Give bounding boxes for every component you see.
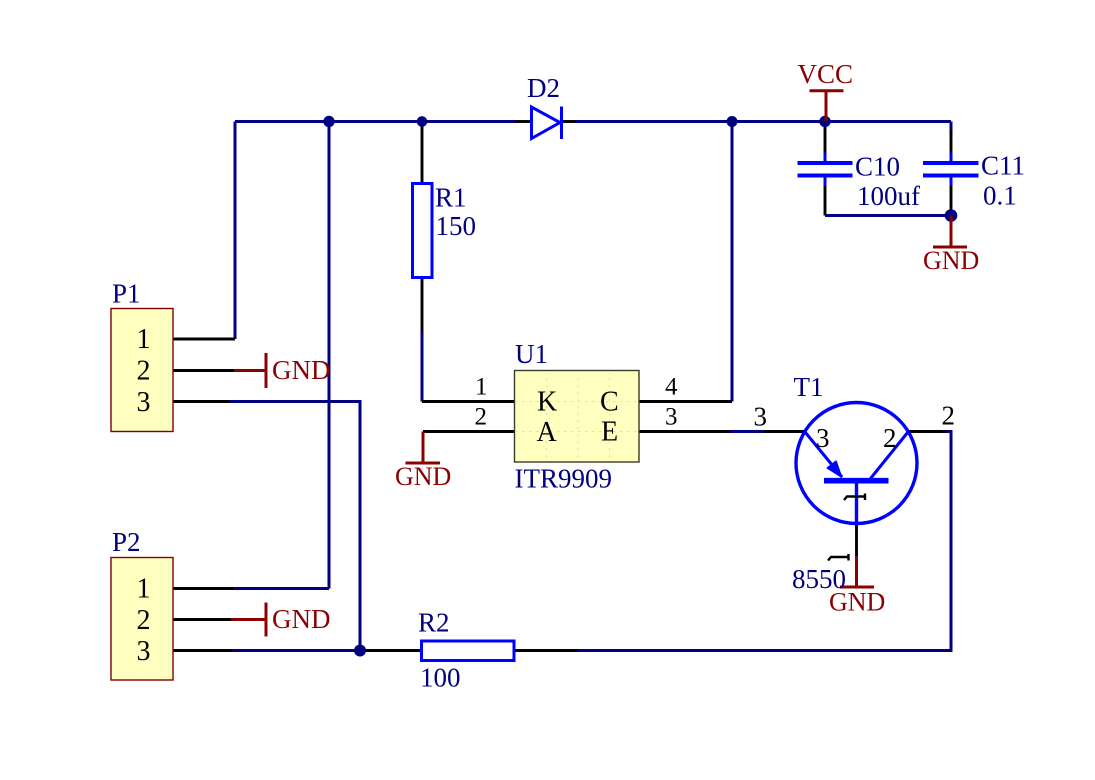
svg-text:100uf: 100uf	[857, 181, 920, 211]
svg-text:D2: D2	[527, 73, 560, 103]
svg-text:0.1: 0.1	[983, 181, 1017, 211]
svg-text:K: K	[537, 387, 557, 418]
svg-text:1: 1	[137, 324, 151, 355]
svg-text:2: 2	[942, 401, 956, 431]
svg-text:ITR9909: ITR9909	[515, 464, 613, 494]
svg-text:GND: GND	[272, 604, 331, 634]
svg-text:3: 3	[754, 402, 768, 432]
svg-text:VCC: VCC	[798, 59, 854, 89]
svg-text:1: 1	[137, 574, 151, 605]
svg-text:3: 3	[816, 423, 830, 453]
svg-text:3: 3	[665, 404, 678, 431]
svg-text:1: 1	[475, 374, 488, 401]
svg-text:2: 2	[475, 404, 488, 431]
svg-text:R1: R1	[435, 183, 467, 213]
svg-text:3: 3	[137, 387, 151, 418]
svg-text:C10: C10	[855, 152, 900, 182]
svg-text:U1: U1	[515, 339, 548, 369]
svg-text:C: C	[600, 387, 619, 418]
svg-text:GND: GND	[272, 355, 331, 385]
svg-text:2: 2	[137, 605, 151, 636]
svg-text:E: E	[601, 417, 618, 448]
svg-text:T1: T1	[794, 372, 824, 402]
svg-text:P2: P2	[112, 527, 141, 557]
svg-text:3: 3	[137, 636, 151, 667]
svg-text:R2: R2	[418, 608, 450, 638]
svg-text:GND: GND	[395, 462, 451, 491]
svg-text:GND: GND	[923, 246, 979, 275]
svg-text:4: 4	[665, 374, 678, 401]
svg-text:P1: P1	[112, 279, 141, 309]
svg-text:A: A	[537, 417, 558, 448]
svg-text:100: 100	[420, 663, 461, 693]
svg-text:2: 2	[883, 423, 897, 453]
svg-text:GND: GND	[829, 588, 885, 617]
svg-text:150: 150	[436, 211, 477, 241]
svg-text:2: 2	[137, 356, 151, 387]
svg-text:C11: C11	[981, 151, 1025, 181]
